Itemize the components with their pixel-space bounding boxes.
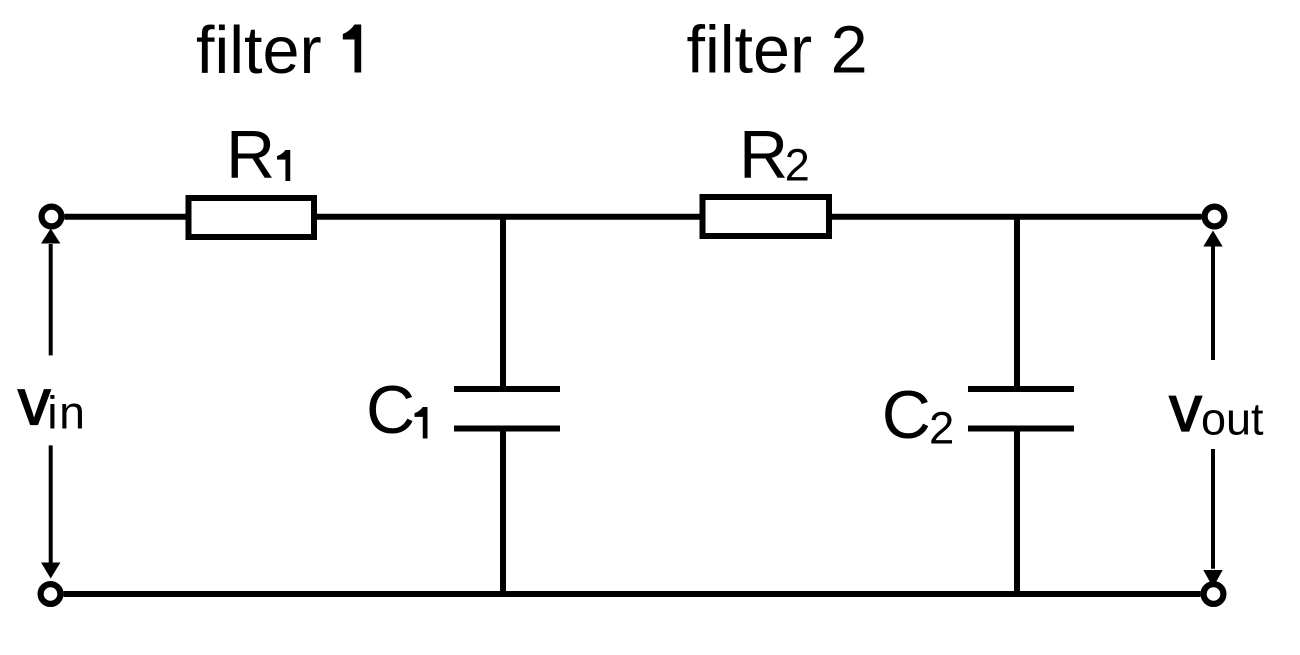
svg-text:filter 2: filter 2 [687, 14, 868, 88]
svg-text:2: 2 [785, 140, 810, 191]
svg-text:v: v [18, 365, 51, 439]
svg-text:R: R [226, 117, 275, 193]
svg-text:out: out [1201, 393, 1264, 444]
svg-text:2: 2 [929, 403, 954, 454]
svg-text:R: R [739, 117, 788, 193]
svg-text:v: v [1169, 371, 1202, 445]
svg-text:in: in [47, 387, 86, 439]
svg-text:C: C [366, 372, 415, 448]
svg-text:C: C [882, 377, 931, 453]
svg-text:filter: filter [196, 14, 322, 88]
